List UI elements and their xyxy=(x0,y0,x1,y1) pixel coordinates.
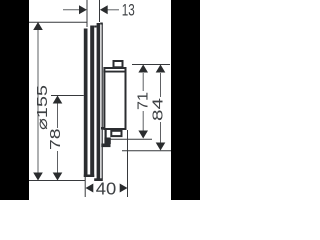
svg-text:⌀155: ⌀155 xyxy=(35,85,51,130)
svg-text:13: 13 xyxy=(122,1,135,19)
svg-text:40: 40 xyxy=(96,179,117,199)
svg-text:78: 78 xyxy=(48,129,64,151)
svg-text:84: 84 xyxy=(151,98,167,121)
svg-text:71: 71 xyxy=(136,92,152,110)
